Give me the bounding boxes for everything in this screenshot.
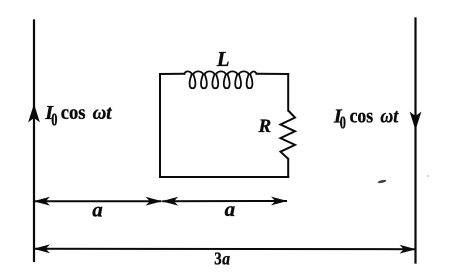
dimension line 3a full span [34, 248, 416, 250]
svg-text:ωt: ωt [93, 102, 113, 124]
arrowhead left end of first a segment [34, 197, 51, 206]
wire loop left edge [159, 74, 161, 177]
smudge mark artifact [377, 179, 386, 184]
label I0 cos wt right [333, 105, 400, 132]
arrowhead current direction up on left wire [29, 105, 40, 122]
arrowhead current direction down on right wire [410, 112, 421, 129]
wire loop top edge left segment [160, 73, 185, 75]
svg-text:cos: cos [350, 105, 374, 127]
wire loop right edge bottom segment [287, 159, 289, 177]
faint speck artifact [427, 175, 429, 177]
arrowhead right end of 3a line [400, 245, 417, 254]
svg-text:a: a [92, 198, 103, 222]
svg-text:0: 0 [51, 109, 57, 129]
svg-text:0: 0 [340, 113, 346, 133]
dimension line a second segment [162, 200, 287, 202]
inductor L coil loops [184, 71, 256, 88]
arrowhead right end of second a segment [271, 197, 288, 206]
svg-text:L: L [216, 47, 230, 71]
resistor R zigzag [281, 111, 296, 159]
arrowhead left end of 3a line [34, 244, 51, 253]
wire loop right edge top segment [287, 74, 289, 111]
wire right long straight conductor [414, 19, 416, 263]
dimension line a first segment [34, 200, 162, 202]
svg-text:cos: cos [61, 102, 86, 124]
label I0 cos wt left [44, 102, 113, 129]
svg-text:ωt: ωt [380, 105, 399, 127]
arrowhead right end of first a segment [146, 197, 163, 206]
svg-text:3: 3 [214, 249, 221, 269]
wire loop top edge right segment [257, 73, 289, 75]
wire left long straight conductor [33, 21, 35, 262]
svg-text:a: a [225, 197, 236, 221]
svg-text:a: a [222, 249, 230, 269]
wire loop bottom edge [160, 176, 288, 178]
svg-text:R: R [258, 116, 272, 137]
arrowhead left end of second a segment [162, 197, 179, 206]
